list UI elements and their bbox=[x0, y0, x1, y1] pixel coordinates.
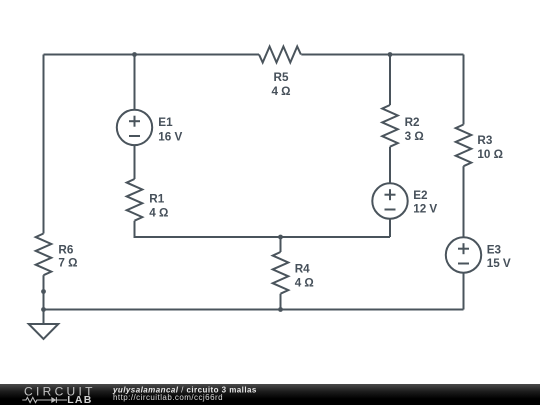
svg-text:3 Ω: 3 Ω bbox=[405, 130, 424, 143]
footer attribution text bbox=[112, 386, 257, 402]
node R6 bottom bbox=[41, 289, 46, 294]
wire E3 bottom to bottom rail bbox=[463, 273, 465, 310]
voltage source E2 bbox=[372, 183, 407, 218]
wire R1 bottom to mid rail bbox=[135, 221, 391, 237]
svg-text:R1: R1 bbox=[149, 192, 164, 205]
wire E1 top bbox=[134, 55, 136, 110]
svg-text:7 Ω: 7 Ω bbox=[58, 257, 77, 270]
node junction R4 bottom bbox=[278, 307, 283, 312]
svg-text:15 V: 15 V bbox=[487, 257, 511, 270]
svg-text:E2: E2 bbox=[413, 189, 428, 202]
svg-text:4 Ω: 4 Ω bbox=[271, 85, 290, 98]
node junction top right bbox=[388, 52, 393, 57]
voltage source E3 bbox=[446, 237, 481, 272]
wire R2 to E2 bbox=[389, 147, 391, 183]
footer bar bbox=[0, 384, 540, 405]
svg-text:R6: R6 bbox=[58, 243, 73, 256]
svg-text:16 V: 16 V bbox=[158, 130, 182, 143]
wire R4 bottom stub bbox=[280, 294, 282, 310]
svg-text:LAB: LAB bbox=[67, 394, 92, 405]
svg-text:R3: R3 bbox=[477, 134, 492, 147]
svg-text:E3: E3 bbox=[487, 243, 502, 256]
svg-text:4 Ω: 4 Ω bbox=[149, 206, 168, 219]
svg-text:R5: R5 bbox=[274, 71, 289, 84]
resistor R2 bbox=[382, 105, 398, 147]
wire bottom rail bbox=[44, 309, 464, 311]
svg-text:4 Ω: 4 Ω bbox=[295, 277, 314, 290]
voltage source E1 bbox=[117, 110, 152, 145]
wire right rail top bbox=[463, 55, 465, 125]
wire top rail left segment bbox=[44, 54, 260, 56]
node ground junction bbox=[41, 307, 46, 312]
svg-text:10 Ω: 10 Ω bbox=[477, 148, 503, 161]
wire R6 to ground node bbox=[43, 275, 45, 324]
wire R4 top stub bbox=[280, 237, 282, 252]
resistor R3 bbox=[456, 125, 472, 167]
svg-text:R4: R4 bbox=[295, 263, 310, 276]
wire R3 to E3 bbox=[463, 166, 465, 237]
wire E2 bottom to mid rail bbox=[389, 219, 391, 237]
svg-text:http://circuitlab.com/ccj66rd: http://circuitlab.com/ccj66rd bbox=[113, 393, 223, 402]
CircuitLab logo wordmark bbox=[22, 385, 95, 405]
wire left rail bbox=[43, 55, 45, 234]
ground bbox=[29, 324, 59, 339]
svg-text:E1: E1 bbox=[158, 116, 173, 129]
svg-text:12 V: 12 V bbox=[413, 203, 437, 216]
resistor R4 bbox=[273, 252, 289, 294]
resistor R1 bbox=[127, 179, 143, 221]
svg-text:R2: R2 bbox=[405, 116, 420, 129]
resistor R6 bbox=[36, 234, 52, 276]
node junction top left bbox=[132, 52, 137, 57]
wire E1 to R1 bbox=[134, 146, 136, 180]
wire top rail right segment bbox=[301, 54, 463, 56]
resistor R5 bbox=[259, 47, 301, 63]
wire R2 top bbox=[389, 55, 391, 106]
node junction R4 top bbox=[278, 235, 283, 240]
